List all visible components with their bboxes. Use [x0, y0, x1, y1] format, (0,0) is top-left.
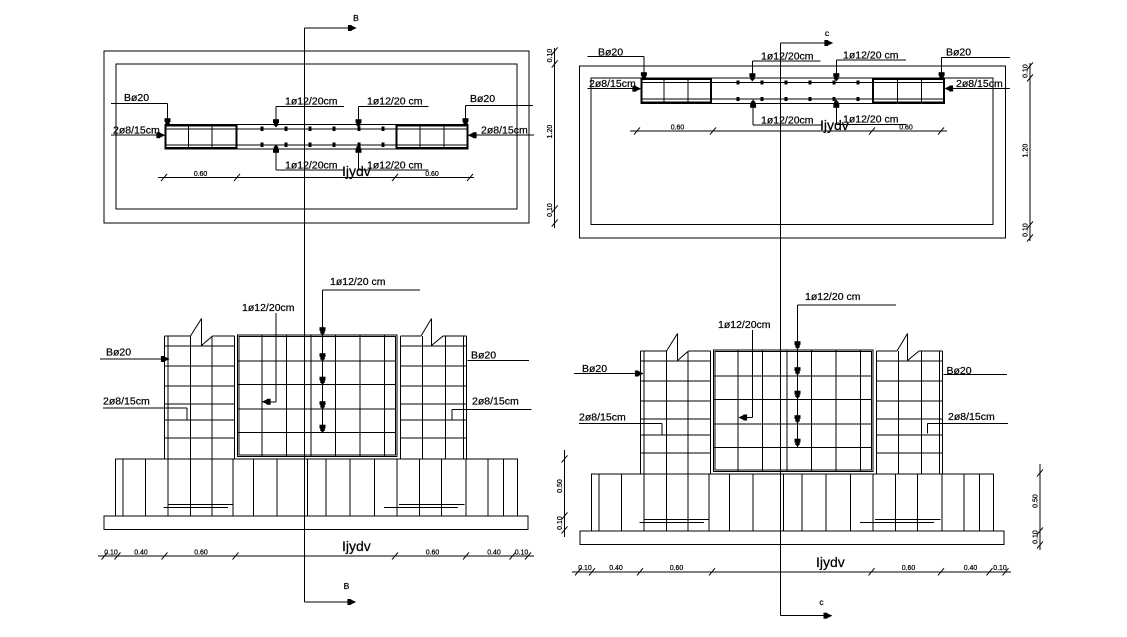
svg-text:0.50: 0.50	[1033, 494, 1040, 508]
elev B bottom dimension line	[98, 555, 534, 557]
elev c left wall break line	[667, 334, 678, 352]
svg-text:0.60: 0.60	[426, 550, 440, 557]
svg-text:0.60: 0.60	[902, 565, 916, 572]
plan c right column box	[873, 79, 944, 103]
section line B vertical	[304, 28, 306, 602]
elev c left wall	[640, 351, 642, 474]
svg-text:0.10: 0.10	[993, 565, 1007, 572]
svg-text:0.40: 0.40	[964, 565, 978, 572]
elev c right wall break line	[897, 334, 908, 352]
svg-text:2ø8/15cm: 2ø8/15cm	[948, 411, 995, 423]
plan B rebar ticks on band	[261, 127, 263, 130]
section line c top arrow	[780, 42, 826, 44]
elev c right wall	[876, 351, 878, 474]
plan B inner rectangle	[116, 64, 517, 209]
elev B base slab	[104, 516, 528, 530]
svg-text:0.10: 0.10	[1023, 64, 1030, 78]
elev B right wall break line	[421, 319, 432, 337]
elev c base slab	[580, 531, 1004, 545]
plan B bottom dimension line 0.60 0.60	[158, 177, 474, 179]
section line c vertical	[779, 43, 781, 616]
svg-text:B: B	[344, 581, 350, 591]
svg-text:0.10: 0.10	[1023, 223, 1030, 237]
svg-text:0.60: 0.60	[671, 125, 685, 132]
svg-text:Bø20: Bø20	[946, 47, 971, 59]
svg-text:2ø8/15cm: 2ø8/15cm	[579, 412, 626, 424]
svg-text:1ø12/20cm: 1ø12/20cm	[718, 319, 771, 331]
svg-text:0.60: 0.60	[899, 125, 913, 132]
svg-text:1ø12/20 cm: 1ø12/20 cm	[330, 276, 386, 288]
svg-text:0.50: 0.50	[557, 479, 564, 493]
elev B left wall break line	[191, 319, 202, 337]
plan B right column box	[397, 125, 468, 148]
elev c starter bars left	[644, 519, 710, 521]
svg-text:1ø12/20cm: 1ø12/20cm	[242, 302, 295, 314]
section line c bottom arrow	[780, 615, 825, 617]
svg-text:0.60: 0.60	[194, 550, 208, 557]
svg-text:0.60: 0.60	[194, 171, 208, 178]
elev c bottom dimension line	[572, 571, 1011, 573]
elev B left wall	[164, 336, 166, 459]
plan c right dimension line 0.10 1.20 0.10	[1029, 63, 1031, 241]
plan c outer rectangle	[580, 66, 1006, 238]
plan c bottom dimension line 0.60 0.60	[630, 130, 947, 132]
elev B right dimension line 0.50 0.10	[564, 450, 566, 537]
svg-text:Ijydv: Ijydv	[342, 538, 371, 554]
plan c left column box	[642, 79, 712, 103]
svg-text:0.40: 0.40	[609, 565, 623, 572]
plan B outer rectangle	[104, 51, 529, 223]
plan c rebar ticks on band	[737, 81, 739, 84]
svg-text:0.10: 0.10	[578, 565, 592, 572]
svg-text:1ø12/20 cm: 1ø12/20 cm	[805, 291, 861, 303]
svg-text:1ø12/20cm: 1ø12/20cm	[285, 96, 338, 108]
svg-text:Ijydv: Ijydv	[816, 554, 845, 570]
svg-text:Bø20: Bø20	[947, 365, 972, 377]
svg-text:Bø20: Bø20	[124, 92, 149, 104]
svg-text:1ø12/20 cm: 1ø12/20 cm	[367, 96, 423, 108]
plan c beam band lines	[641, 82, 946, 84]
plan B right dimension line 0.10 1.20 0.10	[554, 48, 556, 228]
section line B bottom arrow	[305, 601, 349, 603]
elev c starter bars right	[875, 519, 941, 521]
section line B top arrow	[305, 27, 349, 29]
svg-text:0.10: 0.10	[104, 550, 118, 557]
svg-text:Bø20: Bø20	[106, 347, 131, 359]
svg-text:1.20: 1.20	[1023, 144, 1030, 158]
elev B right wall	[400, 336, 402, 459]
svg-text:0.40: 0.40	[134, 550, 148, 557]
elev B footing tier	[116, 459, 518, 516]
svg-text:2ø8/15cm: 2ø8/15cm	[103, 396, 150, 408]
svg-text:Bø20: Bø20	[470, 93, 495, 105]
elev c central panel	[714, 350, 873, 471]
svg-text:0.10: 0.10	[547, 203, 554, 217]
plan B left column box	[166, 125, 237, 148]
elev c tier hatch lines	[598, 474, 600, 531]
elev B tier hatch lines	[122, 459, 124, 516]
svg-text:0.10: 0.10	[547, 49, 554, 63]
plan B beam band lines	[165, 123, 469, 125]
svg-text:0.10: 0.10	[1033, 530, 1040, 544]
elev B starter bars right	[399, 504, 465, 506]
elev B starter bars left	[168, 504, 234, 506]
plan c inner rectangle	[591, 78, 993, 225]
svg-text:Bø20: Bø20	[471, 350, 496, 362]
svg-text:0.10: 0.10	[515, 550, 529, 557]
elev c right dimension line 0.50 0.10	[1039, 464, 1041, 550]
svg-text:0.60: 0.60	[425, 171, 439, 178]
svg-text:0.60: 0.60	[670, 565, 684, 572]
elev c footing tier	[592, 474, 994, 531]
svg-text:0.10: 0.10	[557, 516, 564, 530]
svg-text:1ø12/20 cm: 1ø12/20 cm	[843, 114, 899, 126]
svg-text:2ø8/15cm: 2ø8/15cm	[472, 396, 519, 408]
svg-text:Ijydv: Ijydv	[342, 163, 371, 179]
svg-text:B: B	[353, 13, 359, 23]
svg-text:1.20: 1.20	[547, 125, 554, 139]
svg-text:0.40: 0.40	[487, 550, 501, 557]
elev B central panel	[238, 335, 397, 456]
